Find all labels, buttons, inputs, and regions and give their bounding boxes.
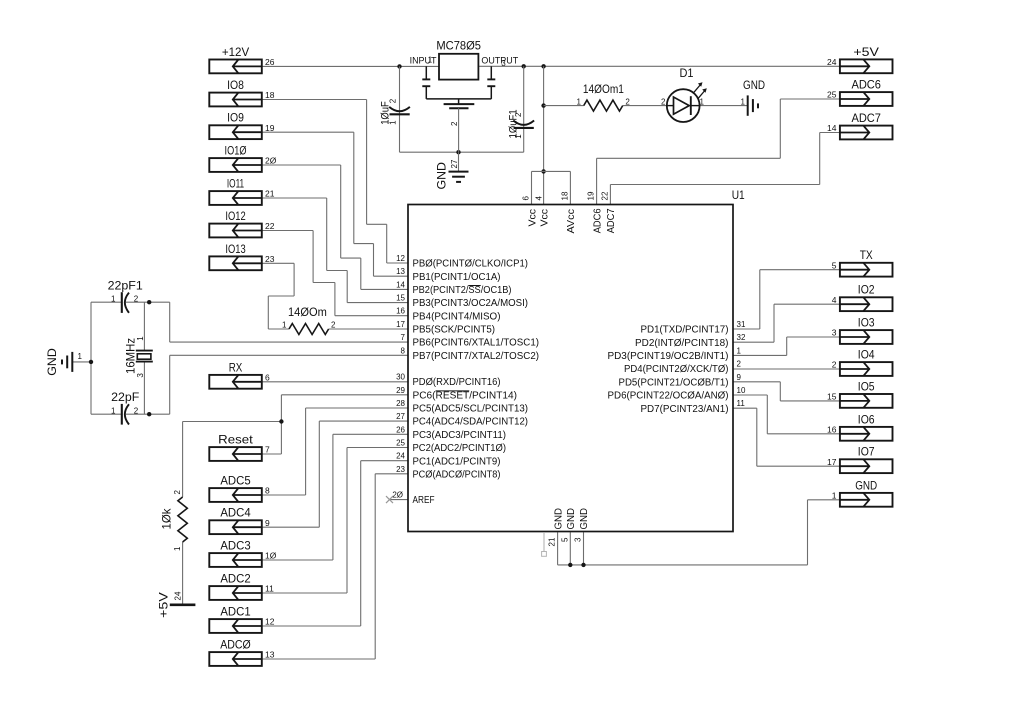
svg-text:1: 1 [428, 56, 433, 65]
svg-text:IO8: IO8 [227, 78, 244, 92]
svg-text:12: 12 [396, 254, 405, 263]
junction [89, 360, 93, 364]
svg-text:1: 1 [577, 97, 582, 106]
wire 10k to Reset [183, 421, 282, 423]
svg-text:14ØOm1: 14ØOm1 [583, 82, 624, 96]
junction [541, 169, 545, 173]
input capacitor of regulator [422, 66, 430, 99]
connector Reset (pin 7) [209, 433, 270, 461]
svg-text:8: 8 [401, 346, 406, 355]
svg-text:PDØ(RXD/PCINT16): PDØ(RXD/PCINT16) [413, 377, 501, 388]
svg-text:2: 2 [450, 121, 459, 126]
wire regulator ground bus [400, 151, 524, 153]
wire IO4 net [733, 368, 840, 370]
svg-text:26: 26 [265, 57, 275, 67]
svg-text:22: 22 [600, 191, 609, 200]
U1 pin 1 PD3 [608, 346, 742, 362]
U1 pin 7 PB6 [401, 333, 539, 349]
svg-text:PD5(PCINT21/OCØB/T1): PD5(PCINT21/OCØB/T1) [619, 377, 729, 388]
pin 1 label of MC7805 [428, 56, 433, 65]
svg-text:IO12: IO12 [225, 209, 246, 223]
svg-text:IO1Ø: IO1Ø [225, 144, 247, 158]
svg-text:IO11: IO11 [227, 177, 245, 191]
svg-text:4: 4 [535, 196, 544, 201]
ground at crystal [45, 348, 83, 376]
svg-text:PD7(PCINT23/AN1): PD7(PCINT23/AN1) [641, 404, 729, 415]
svg-text:1: 1 [737, 346, 742, 355]
svg-text:GND: GND [855, 478, 877, 492]
wire ADC4 net [262, 421, 408, 527]
wire Vcc bracket [532, 170, 571, 172]
svg-text:ADC5: ADC5 [220, 474, 251, 488]
wire +12V rail [262, 65, 439, 67]
svg-text:1: 1 [111, 294, 116, 303]
wire D1 to GND [700, 105, 748, 107]
wire XTAL1 top [91, 301, 170, 303]
svg-text:30: 30 [396, 373, 405, 382]
U1 pin 11 PD7 [641, 399, 746, 415]
U1 pin 30 PDØ [396, 373, 500, 389]
svg-text:PC2(ADC2/PCINT1Ø): PC2(ADC2/PCINT1Ø) [413, 443, 507, 454]
svg-text:1: 1 [514, 134, 523, 139]
wire 10uF bottom lead [399, 114, 401, 152]
U1 pin 23 PCØ [396, 465, 500, 481]
svg-text:19: 19 [587, 191, 596, 200]
svg-text:22pF1: 22pF1 [108, 278, 144, 292]
svg-text:2Ø: 2Ø [392, 491, 403, 500]
wire R2 to PB5 [329, 328, 408, 330]
svg-text:GND: GND [578, 508, 590, 530]
svg-text:TX: TX [860, 248, 873, 262]
connector +5V (pin 24) [827, 45, 892, 73]
svg-text:15: 15 [827, 392, 837, 402]
U1 pin 15 PB3 [396, 294, 528, 310]
connector IO5 (pin 15) [827, 379, 892, 407]
svg-text:Vcc: Vcc [538, 209, 550, 227]
junction [541, 103, 545, 107]
svg-text:GND: GND [45, 348, 59, 376]
wire 10uF1 top lead [523, 66, 525, 127]
wire ADC5 net [262, 408, 408, 495]
svg-text:ADC7: ADC7 [605, 208, 617, 233]
U1 pin 4 Vcc [535, 196, 551, 227]
svg-text:2: 2 [134, 294, 139, 303]
wire XTAL2 to PB7 [170, 355, 408, 414]
wire IO10 net [262, 165, 408, 289]
wire IO5 net [733, 382, 840, 401]
svg-text:ADC7: ADC7 [851, 111, 881, 125]
wire Reset net [262, 395, 408, 454]
connector +12V (pin 26) [209, 45, 274, 73]
wire R1 to D1 [623, 105, 667, 107]
svg-text:PC4(ADC4/SDA/PCINT12): PC4(ADC4/SDA/PCINT12) [413, 417, 529, 428]
svg-text:AREF: AREF [413, 495, 435, 506]
svg-text:4: 4 [832, 295, 837, 305]
wire 10k top [182, 422, 184, 498]
U1 pin 31 PD1 [641, 320, 746, 336]
connector IO10 (pin 2Ø) [209, 144, 276, 172]
wire ADC2 net [262, 448, 408, 594]
svg-text:1: 1 [832, 491, 837, 501]
U1 pin 3 GND [574, 508, 591, 542]
no-connect X on AREF [386, 496, 393, 503]
svg-text:Reset: Reset [218, 433, 253, 447]
svg-text:IO7: IO7 [858, 445, 875, 459]
svg-text:2: 2 [134, 406, 139, 415]
svg-text:29: 29 [396, 386, 405, 395]
junction [279, 419, 283, 423]
wire +5V to R1 [544, 105, 584, 107]
svg-text:+12V: +12V [222, 45, 249, 59]
svg-text:3: 3 [574, 537, 583, 542]
svg-text:5: 5 [832, 260, 837, 270]
connector ADC0 (pin 13) [209, 638, 274, 666]
crystal 16MHz [123, 302, 153, 414]
U1 pin 12 PBØ [396, 254, 528, 270]
svg-text:IO2: IO2 [858, 283, 875, 297]
svg-text:ADC2: ADC2 [220, 572, 251, 586]
U1 pin 8 PB7 [401, 346, 539, 362]
connector ADC4 (pin 9) [209, 506, 270, 534]
svg-text:PB6(PCINT6/XTAL1/TOSC1): PB6(PCINT6/XTAL1/TOSC1) [413, 338, 540, 349]
connector IO3 (pin 3) [832, 316, 893, 344]
svg-text:14: 14 [827, 123, 837, 133]
resistor 140Om1 [577, 82, 631, 111]
U1 pin 13 PB1 [396, 267, 500, 283]
svg-text:28: 28 [396, 399, 405, 408]
capacitor 22pF1 [108, 278, 144, 313]
connector ADC5 (pin 8) [209, 474, 270, 502]
svg-text:16MHz: 16MHz [123, 338, 137, 374]
svg-text:ADC4: ADC4 [220, 506, 251, 520]
wire XTAL1 to PB6 [170, 302, 408, 342]
junction [147, 300, 151, 304]
svg-text:PB3(PCINT3/OC2A/MOSI): PB3(PCINT3/OC2A/MOSI) [413, 298, 529, 309]
svg-text:D1: D1 [680, 66, 694, 80]
wire GND bus [558, 500, 840, 565]
svg-text:3: 3 [832, 328, 837, 338]
svg-text:21: 21 [548, 537, 557, 546]
wire crystal left vertical [90, 302, 92, 414]
wire ADC0 net [262, 474, 408, 659]
svg-text:1: 1 [389, 120, 398, 125]
resistor 10k [159, 490, 187, 552]
svg-text:17: 17 [827, 457, 837, 467]
svg-text:ADC1: ADC1 [220, 605, 251, 619]
svg-text:AVcc: AVcc [565, 209, 577, 234]
svg-text:8: 8 [265, 486, 270, 496]
svg-text:INPUT: INPUT [410, 55, 437, 66]
svg-text:9: 9 [265, 518, 270, 528]
svg-text:IO3: IO3 [858, 316, 875, 330]
svg-text:PD1(TXD/PCINT17): PD1(TXD/PCINT17) [641, 325, 729, 336]
svg-text:1: 1 [111, 406, 116, 415]
U1 pin 29 PC6 [396, 386, 517, 402]
svg-text:14: 14 [396, 280, 405, 289]
connector RX (pin 6) [209, 360, 270, 388]
wire IO2 net [733, 304, 840, 342]
svg-text:21: 21 [265, 189, 275, 199]
svg-text:1: 1 [78, 352, 83, 361]
U1 pin 16 PB4 [396, 307, 500, 323]
svg-text:32: 32 [737, 333, 746, 342]
svg-text:24: 24 [173, 591, 182, 600]
svg-text:7: 7 [401, 333, 406, 342]
svg-text:PD4(PCINT2Ø/XCK/TØ): PD4(PCINT2Ø/XCK/TØ) [624, 364, 729, 375]
U1 pin 32 PD2 [635, 333, 746, 349]
connector IO13 (pin 23) [209, 242, 274, 270]
U1 pin 27 PC4 [396, 412, 528, 428]
svg-text:ADCØ: ADCØ [220, 638, 251, 652]
junction [581, 563, 585, 567]
svg-text:PD3(PCINT19/OC2B/INT1): PD3(PCINT19/OC2B/INT1) [608, 351, 729, 362]
svg-text:ADC6: ADC6 [591, 208, 603, 233]
regulator ground pin 2 [444, 99, 475, 152]
svg-text:18: 18 [560, 191, 569, 200]
svg-text:1: 1 [700, 98, 705, 107]
svg-text:2: 2 [737, 360, 742, 369]
svg-text:1Ø: 1Ø [265, 551, 277, 561]
svg-text:11: 11 [737, 399, 746, 408]
U1 pin 14 PB2 [396, 280, 511, 296]
svg-text:PD2(INTØ/PCINT18): PD2(INTØ/PCINT18) [635, 338, 729, 349]
wire IO9 net [262, 132, 408, 276]
svg-text:19: 19 [265, 123, 275, 133]
wire regulator cap bracket [426, 98, 491, 100]
connector GND (pin 1) [832, 478, 893, 506]
svg-text:16: 16 [396, 307, 405, 316]
svg-text:2: 2 [514, 112, 523, 117]
svg-text:18: 18 [265, 90, 275, 100]
connector ADC6 (pin 25) [827, 78, 892, 106]
junction [568, 563, 572, 567]
wire ADC7 net [610, 133, 840, 205]
svg-text:1: 1 [136, 336, 145, 341]
wire 10k bottom [182, 542, 184, 605]
connector ADC2 (pin 11) [209, 572, 274, 600]
svg-text:PD6(PCINT22/OCØA/ANØ): PD6(PCINT22/OCØA/ANØ) [608, 391, 729, 402]
svg-text:GND: GND [565, 508, 577, 530]
U1 pin 18 AVcc [560, 191, 577, 233]
connector ADC3 (pin 1Ø) [209, 539, 276, 567]
svg-text:25: 25 [827, 90, 837, 100]
connector ADC1 (pin 12) [209, 605, 274, 633]
svg-text:PB7(PCINT7/XTAL2/TOSC2): PB7(PCINT7/XTAL2/TOSC2) [413, 351, 540, 362]
U1 pin 25 PC2 [396, 439, 506, 455]
U1 pin 22 ADC7 [600, 191, 617, 233]
svg-text:IO4: IO4 [858, 348, 875, 362]
U1 pin 5 GND [560, 508, 577, 542]
resistor 140Om [282, 305, 336, 335]
svg-text:+5V: +5V [157, 592, 171, 618]
svg-text:6: 6 [265, 373, 270, 383]
wire +5V rail [478, 65, 840, 67]
U1 pin 21 GND [548, 508, 565, 547]
svg-text:2: 2 [832, 360, 837, 370]
svg-text:24: 24 [396, 452, 405, 461]
capacitor 10uF1 [507, 109, 534, 138]
svg-text:MC78Ø5: MC78Ø5 [436, 39, 481, 53]
svg-text:1Øk: 1Øk [159, 508, 173, 530]
svg-text:13: 13 [265, 650, 275, 660]
svg-text:27: 27 [396, 412, 405, 421]
svg-text:3: 3 [501, 59, 506, 68]
svg-text:+5V: +5V [853, 45, 879, 59]
svg-text:5: 5 [560, 537, 569, 542]
wire ADC1 net [262, 461, 408, 626]
U1 pin 10 PD6 [608, 386, 746, 402]
svg-text:Vcc: Vcc [526, 209, 538, 227]
svg-text:14ØOm: 14ØOm [288, 305, 327, 319]
junction [397, 64, 401, 68]
svg-text:IO5: IO5 [858, 379, 875, 393]
connector IO8 (pin 18) [209, 78, 274, 106]
svg-text:25: 25 [396, 439, 405, 448]
svg-text:1: 1 [282, 321, 287, 330]
junction [541, 64, 545, 68]
svg-text:2: 2 [625, 97, 630, 106]
svg-text:22pF: 22pF [111, 390, 139, 404]
svg-text:GND: GND [435, 162, 449, 190]
svg-text:23: 23 [265, 254, 275, 264]
connector IO7 (pin 17) [827, 445, 892, 473]
wire IO11 net [262, 198, 408, 303]
wire +5V vertical [543, 66, 545, 204]
connector ADC7 (pin 14) [827, 111, 892, 139]
pin 3 label of MC7805 [501, 59, 506, 68]
svg-text:6: 6 [522, 196, 531, 201]
svg-text:2: 2 [331, 321, 336, 330]
connector IO12 (pin 22) [209, 209, 274, 237]
svg-text:10: 10 [737, 386, 746, 395]
connector IO6 (pin 16) [827, 412, 892, 440]
svg-text:ADC3: ADC3 [220, 539, 251, 553]
svg-text:7: 7 [265, 445, 270, 455]
svg-text:IO6: IO6 [858, 412, 875, 426]
svg-text:27: 27 [450, 159, 459, 168]
svg-text:11: 11 [265, 584, 274, 594]
svg-text:23: 23 [396, 465, 405, 474]
svg-text:PB2(PCINT2/SS/OC1B): PB2(PCINT2/SS/OC1B) [413, 285, 512, 296]
wire GND to crystal [72, 361, 91, 363]
wire pin 18 stub [569, 171, 571, 204]
junction [147, 412, 151, 416]
connector IO4 (pin 2) [832, 348, 893, 376]
svg-text:GND: GND [552, 508, 564, 530]
svg-text:PCØ(ADCØ/PCINT8): PCØ(ADCØ/PCINT8) [413, 469, 501, 480]
U1 pin 26 PC3 [396, 425, 506, 441]
wire 10uF1 bottom lead [523, 128, 525, 152]
svg-text:ADC6: ADC6 [851, 78, 881, 92]
svg-text:U1: U1 [732, 188, 745, 202]
svg-text:PBØ(PCINTØ/CLKO/ICP1): PBØ(PCINTØ/CLKO/ICP1) [413, 259, 529, 270]
U1 pin 28 PC5 [396, 399, 528, 415]
svg-text:24: 24 [827, 57, 837, 67]
svg-text:PC5(ADC5/SCL/PCINT13): PC5(ADC5/SCL/PCINT13) [413, 404, 529, 415]
svg-text:16: 16 [827, 425, 837, 435]
LED D1 [661, 66, 707, 122]
wire pin 6 stub [531, 171, 533, 204]
wire XTAL2 bottom [91, 413, 170, 415]
ground right of LED [741, 78, 766, 116]
wire IO7 net [733, 408, 840, 466]
svg-text:PC1(ADC1/PCINT9): PC1(ADC1/PCINT9) [413, 456, 501, 467]
wire RX net [262, 381, 408, 383]
svg-text:9: 9 [737, 373, 742, 382]
junction [456, 150, 460, 154]
svg-text:IO13: IO13 [225, 242, 246, 256]
wire IO12 net [262, 231, 408, 316]
svg-text:2: 2 [661, 98, 666, 107]
wire IO13 net [262, 263, 294, 329]
wire TX net [733, 270, 840, 329]
svg-text:13: 13 [396, 267, 405, 276]
power +5V symbol [157, 591, 196, 618]
svg-text:GND: GND [743, 78, 765, 92]
wire IO3 net [733, 337, 840, 355]
svg-text:OUTPUT: OUTPUT [481, 55, 518, 66]
svg-text:17: 17 [396, 320, 405, 329]
wire 10uF top lead [399, 66, 401, 113]
wire ADC3 net [262, 434, 408, 560]
connector TX (pin 5) [832, 248, 893, 276]
svg-text:3: 3 [136, 373, 145, 378]
capacitor 10uF [379, 98, 410, 125]
svg-text:1: 1 [173, 546, 182, 551]
svg-text:IO9: IO9 [227, 111, 244, 125]
svg-text:2: 2 [389, 98, 398, 103]
connector IO11 (pin 21) [209, 177, 274, 205]
U1 pin 9 PD5 [619, 373, 742, 389]
junction [522, 64, 526, 68]
svg-text:PC6(RESET/PCINT14): PC6(RESET/PCINT14) [413, 390, 518, 401]
IC U1 ATmega328 [408, 188, 745, 532]
wire ADC6 net [597, 99, 840, 205]
svg-text:22: 22 [265, 221, 275, 231]
connector IO2 (pin 4) [832, 283, 893, 311]
svg-text:31: 31 [737, 320, 746, 329]
svg-text:PC3(ADC3/PCINT11): PC3(ADC3/PCINT11) [413, 430, 507, 441]
U1 pin 19 ADC6 [587, 191, 604, 233]
capacitor 22pF [111, 390, 139, 424]
svg-text:PB5(SCK/PCINT5): PB5(SCK/PCINT5) [413, 325, 496, 336]
voltage regulator MC7805 [410, 39, 519, 80]
svg-text:PB4(PCINT4/MISO): PB4(PCINT4/MISO) [413, 311, 501, 322]
svg-text:15: 15 [396, 294, 405, 303]
U1 pin 17 PB5 [396, 320, 495, 336]
svg-text:PB1(PCINT1/OC1A): PB1(PCINT1/OC1A) [413, 272, 501, 283]
wire AREF stub [390, 499, 409, 501]
svg-text:2Ø: 2Ø [265, 156, 277, 166]
ground below regulator [435, 152, 469, 189]
wire IO8 net [262, 100, 408, 264]
connector IO9 (pin 19) [209, 111, 274, 139]
svg-text:2: 2 [173, 490, 182, 495]
output capacitor of regulator [487, 66, 495, 99]
wire IO6 net [733, 395, 840, 434]
svg-text:12: 12 [265, 617, 275, 627]
U1 pin 20 AREF [392, 491, 434, 507]
svg-text:1: 1 [741, 98, 746, 107]
svg-text:26: 26 [396, 425, 405, 434]
svg-text:RX: RX [229, 360, 243, 374]
U1 pin 6 Vcc [522, 196, 539, 227]
U1 pin 2 PD4 [624, 360, 742, 376]
U1 pin 24 PC1 [396, 452, 500, 468]
unconnected stub [542, 533, 547, 556]
